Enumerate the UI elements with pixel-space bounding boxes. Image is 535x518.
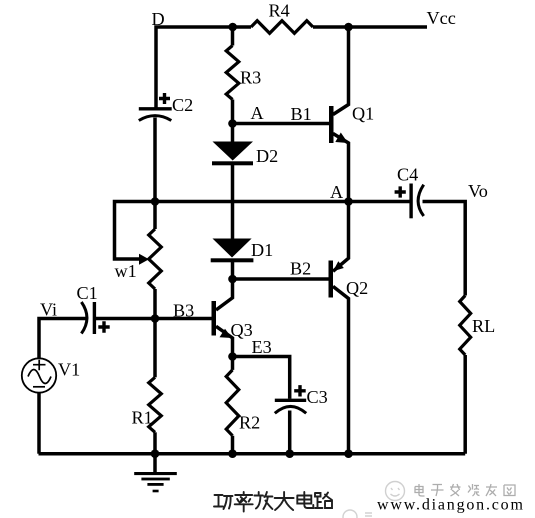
capacitor C2 curved plate — [139, 116, 172, 121]
junction node A (top) — [228, 119, 237, 128]
junction node B3 — [151, 314, 160, 323]
svg-text:V1: V1 — [58, 360, 80, 380]
wire node-A horizontal and w1 wiper arm — [115, 202, 349, 260]
svg-text:C4: C4 — [397, 165, 418, 185]
junction C3 / rail — [285, 449, 294, 458]
diode D1 triangle — [213, 239, 252, 258]
diode D2 triangle — [213, 142, 254, 161]
watermark doodle bottom left partial — [343, 510, 372, 518]
wire C3 to bottom rail — [288, 411, 292, 454]
transistor Q2 collector wire — [333, 286, 349, 453]
transistor Q3 emitter — [216, 326, 233, 356]
ground bar 1 — [134, 472, 177, 475]
capacitor C1 curved plate — [81, 302, 87, 334]
caption 功率放大电路 (hand-drawn glyph strokes) — [214, 492, 332, 512]
svg-text:B1: B1 — [291, 104, 312, 124]
diode D1 cathode bar — [211, 258, 254, 262]
resistor R1 — [153, 319, 157, 378]
transistor Q1 collector — [333, 27, 349, 115]
potentiometer w1 — [153, 202, 157, 230]
wire top rail left segment (D node to R4) — [156, 27, 251, 108]
svg-text:D1: D1 — [251, 240, 273, 260]
svg-text:C3: C3 — [307, 387, 328, 407]
svg-text:Q2: Q2 — [346, 278, 368, 298]
resistor R3 — [231, 27, 235, 46]
junction dot top rail / R3 — [228, 23, 237, 32]
svg-text:Vcc: Vcc — [427, 8, 456, 28]
svg-text:R1: R1 — [132, 408, 153, 428]
transistor Q2 base bar — [329, 261, 334, 298]
transistor Q1 base bar — [329, 106, 334, 143]
svg-text:C1: C1 — [77, 283, 98, 303]
capacitor C4 straight plate — [409, 184, 412, 219]
capacitor C4 curved plate — [418, 185, 424, 216]
transistor Q3 emitter arrow — [220, 329, 233, 338]
junction C2 / w1 — [151, 197, 160, 206]
ground bar 2 — [141, 478, 169, 481]
svg-text:RL: RL — [472, 316, 495, 336]
junction node E3 — [228, 352, 237, 361]
junction R2 / rail — [228, 449, 237, 458]
wire B1 base wire — [233, 122, 330, 126]
svg-text:B3: B3 — [173, 301, 194, 321]
plus sign C1 — [98, 321, 109, 332]
junction dot top rail / Q1 collector — [344, 23, 353, 32]
capacitor C3 top plate — [275, 399, 306, 402]
svg-text:R3: R3 — [240, 68, 261, 88]
svg-text:A: A — [251, 103, 264, 123]
plus sign C3 — [294, 385, 306, 396]
source V1 circle — [22, 358, 56, 392]
junction Q2 collector / rail — [344, 449, 353, 458]
svg-text:www.diangon.com: www.diangon.com — [377, 497, 525, 514]
capacitor C2 top plate — [139, 107, 172, 110]
transistor Q2 emitter arrow — [333, 261, 344, 271]
transistor Q1 emitter arrow — [335, 133, 348, 144]
resistor R4 — [251, 21, 313, 34]
svg-text:D2: D2 — [256, 146, 278, 166]
svg-text:A: A — [330, 182, 343, 202]
wire E3 to C3 — [233, 357, 290, 399]
potentiometer w1 wiper arrow — [139, 254, 149, 265]
svg-text:Q1: Q1 — [352, 104, 374, 124]
svg-text:D: D — [152, 9, 165, 29]
wire top rail right segment (R4 to Vcc) — [313, 25, 427, 29]
wire bottom rail — [39, 452, 466, 456]
wire B2 base wire — [233, 277, 329, 281]
svg-text:B2: B2 — [290, 259, 311, 279]
ground bar 3 — [147, 483, 163, 486]
capacitor C1 straight plate — [93, 302, 96, 334]
svg-text:w1: w1 — [115, 261, 137, 281]
wire C2 to w1 junction — [153, 118, 157, 202]
svg-text:C2: C2 — [172, 95, 193, 115]
svg-text:E3: E3 — [252, 337, 272, 357]
wire C4 to Vo corner, down to RL — [423, 202, 466, 296]
resistor RL — [460, 296, 471, 356]
diode D2 cathode bar — [212, 161, 253, 165]
junction node A (output) — [344, 197, 353, 206]
capacitor C4 wire from node A — [349, 200, 410, 204]
transistor Q2 emitter wire — [333, 202, 349, 272]
wire Vi input — [39, 319, 86, 359]
svg-text:Q3: Q3 — [231, 320, 253, 340]
wire diode chain — [231, 124, 235, 142]
ground stem — [153, 454, 157, 472]
watermark text 电子发烧友网 (hand-drawn gray strokes) — [415, 484, 515, 496]
junction D1 / B2 / Q3 collector — [228, 275, 237, 284]
junction ground node — [151, 449, 160, 458]
wire B3 base wire — [96, 317, 212, 321]
svg-text:Vo: Vo — [468, 181, 488, 201]
transistor Q3 base bar — [212, 301, 217, 336]
svg-text:Vi: Vi — [40, 300, 57, 320]
svg-text:R2: R2 — [239, 413, 260, 433]
plus sign C4 — [395, 186, 406, 197]
svg-text:R4: R4 — [269, 1, 290, 21]
source V1 symbols — [28, 360, 51, 387]
watermark smiley doodle — [386, 482, 405, 501]
wire V1 to bottom rail — [37, 392, 41, 453]
resistor R2 — [231, 357, 235, 370]
ground bar 4 — [153, 490, 159, 493]
capacitor C3 curved plate — [275, 406, 306, 413]
transistor Q1 emitter — [333, 134, 349, 202]
plus sign C2 — [98, 93, 406, 397]
transistor Q3 collector — [216, 279, 233, 310]
